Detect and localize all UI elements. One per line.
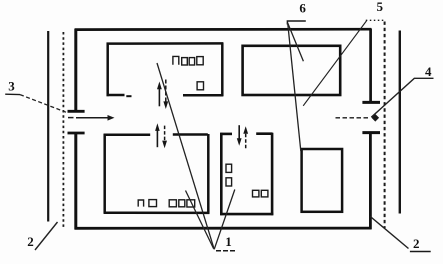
building wall right lower (369, 133, 372, 230)
room 3 door up-arrow (155, 123, 160, 147)
wall end cap right lower (362, 131, 380, 134)
label 6 underline with hook (287, 21, 305, 25)
room 2 top-right (243, 46, 341, 95)
fence line right (solid) (399, 31, 401, 214)
svg-text:5: 5 (377, 0, 384, 14)
leader 2 right (370, 217, 408, 249)
svg-text:4: 4 (425, 64, 432, 79)
room 1 top-left walls (107, 43, 224, 97)
exhaust air arrow right (336, 114, 380, 122)
wall end cap left lower (68, 132, 85, 135)
room 3 machines triple (169, 200, 195, 207)
fence line left (solid) (47, 31, 49, 222)
wall end cap left upper (68, 110, 85, 113)
room 1 door up-arrow (157, 82, 162, 107)
leader 6b (to room 5) (288, 23, 301, 151)
leader 1b (to room 4) (214, 190, 235, 250)
room 1 machine single (197, 82, 203, 90)
leader 6a (to room 2) (288, 23, 304, 61)
label 2 right underline (410, 251, 431, 253)
building wall left upper (74, 29, 77, 112)
boundary line right (dash-dot) (384, 22, 386, 229)
leader 4 with underline (371, 78, 433, 117)
label 3 underline (5, 93, 20, 95)
svg-text:2: 2 (27, 234, 34, 249)
leader 2 left (35, 222, 58, 250)
leader 5 (303, 21, 366, 106)
supply air arrow left (68, 115, 115, 121)
room 3 bottom-left walls (104, 134, 210, 214)
room 3 door down-arrow (dashed) (162, 126, 167, 149)
room 1 machines row (173, 56, 203, 65)
building wall bottom (75, 227, 372, 230)
building wall top (75, 28, 371, 31)
room 1 door down-arrow (dashed) (163, 80, 168, 110)
svg-text:6: 6 (299, 0, 306, 15)
building wall right upper (369, 29, 372, 102)
boundary line left (dash-dot) (62, 32, 64, 229)
room 4 door down-arrow (237, 125, 242, 146)
room 4 door up-arrow (dashed) (243, 126, 248, 148)
building wall left lower (74, 133, 77, 229)
room 5 bottom-right (302, 149, 343, 212)
leader 1c (to room 3 machines) (186, 191, 214, 249)
leader 3 (dashed) (20, 95, 66, 113)
svg-text:3: 3 (8, 79, 15, 94)
label 5 dotted underline (366, 19, 385, 21)
wall end cap right upper (362, 101, 380, 104)
svg-text:1: 1 (225, 234, 232, 249)
room 4 machines bottom pair (253, 190, 268, 197)
room 3 machines pair (138, 200, 156, 207)
room 4 middle-bottom walls (220, 133, 273, 215)
svg-text:2: 2 (413, 236, 420, 251)
label 1 underline (216, 250, 236, 252)
leader 1a (to room 1 door) (157, 63, 214, 249)
room 4 machines left stack (226, 164, 232, 186)
